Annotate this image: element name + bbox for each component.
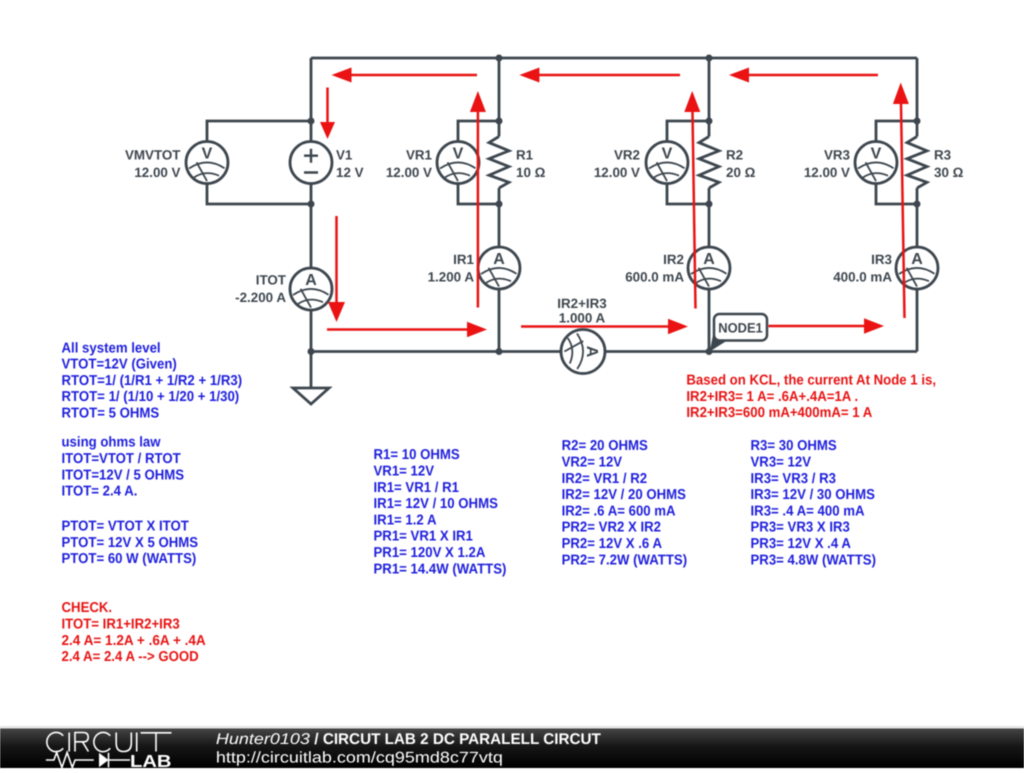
svg-text:VR2= 12V: VR2= 12V: [562, 455, 623, 471]
label V1: [336, 148, 364, 181]
voltmeter VR1: [437, 142, 479, 184]
svg-text:PR1= VR1 X IR1: PR1= VR1 X IR1: [374, 529, 473, 545]
junction VR1 bottom: [496, 201, 503, 208]
svg-text:VMVTOT: VMVTOT: [125, 148, 181, 163]
label IR2: [625, 252, 684, 285]
svg-text:30 Ω: 30 Ω: [934, 165, 964, 180]
svg-text:LAB: LAB: [130, 751, 172, 768]
node NODE1 callout: [710, 314, 767, 352]
svg-text:VR3: VR3: [824, 148, 850, 163]
label IR2+IR3: [557, 296, 607, 326]
svg-text:NODE1: NODE1: [718, 321, 763, 336]
svg-text:PR3= 4.8W (WATTS): PR3= 4.8W (WATTS): [751, 552, 877, 568]
wire R1 branch top: [498, 58, 501, 137]
junction VR3 top: [914, 118, 921, 125]
svg-text:PTOT= 60 W (WATTS): PTOT= 60 W (WATTS): [62, 551, 197, 567]
label VMVTOT: [125, 148, 181, 181]
red current arrows: [320, 68, 909, 338]
svg-text:IR3: IR3: [871, 252, 892, 267]
svg-text:PR2= 12V X .6 A: PR2= 12V X .6 A: [562, 536, 662, 552]
annotation notes column 2 blue: [374, 447, 507, 577]
svg-text:PR2= VR2 X IR2: PR2= VR2 X IR2: [562, 520, 661, 536]
svg-text:R2= 20 OHMS: R2= 20 OHMS: [562, 438, 648, 454]
arrow top right: [747, 74, 878, 77]
svg-text:A: A: [583, 346, 600, 358]
svg-text:ITOT=12V / 5 OHMS: ITOT=12V / 5 OHMS: [62, 467, 185, 483]
svg-text:IR1= 1.2 A: IR1= 1.2 A: [374, 512, 437, 528]
junction bottom bus at R2 branch (node 1): [706, 348, 713, 355]
resistor R2: [699, 137, 719, 189]
svg-text:A: A: [911, 251, 923, 268]
arrow bottom right: [769, 325, 865, 328]
ammeter IR1: [478, 247, 520, 289]
voltmeter VR2: [646, 142, 688, 184]
annotation notes column 1 blue: [62, 340, 243, 567]
svg-text:A: A: [305, 272, 317, 289]
junction V1 bottom: [308, 201, 315, 208]
ammeter IR3: [896, 247, 938, 289]
svg-text:IR3= VR3 / R3: IR3= VR3 / R3: [751, 471, 837, 487]
wire VR3 bottom link: [876, 184, 917, 205]
svg-text:R3: R3: [934, 148, 951, 163]
ground stem: [310, 352, 313, 389]
svg-text:R3= 30 OHMS: R3= 30 OHMS: [751, 438, 837, 454]
svg-text:V1: V1: [336, 148, 353, 163]
svg-text:IR2+IR3=600 mA+400mA= 1 A: IR2+IR3=600 mA+400mA= 1 A: [686, 405, 872, 421]
arrow down V1: [326, 88, 329, 123]
svg-text:1.000 A: 1.000 A: [559, 311, 606, 326]
svg-text:400.0 mA: 400.0 mA: [833, 270, 892, 285]
svg-text:V: V: [662, 145, 673, 162]
svg-text:A: A: [703, 251, 715, 268]
wire bottom bus right: [605, 350, 917, 353]
svg-text:IR2+IR3: IR2+IR3: [557, 296, 607, 311]
svg-text:VR1: VR1: [406, 148, 433, 163]
svg-text:ITOT= 2.4 A.: ITOT= 2.4 A.: [62, 484, 138, 500]
svg-text:12.00 V: 12.00 V: [134, 165, 180, 180]
annotation KCL note red: [686, 373, 936, 422]
arrow top left: [350, 74, 478, 77]
wire VR3 top link: [876, 121, 917, 142]
footer bar: [0, 726, 1024, 771]
svg-text:Hunter0103 / CIRCUT LAB 2 DC P: Hunter0103 / CIRCUT LAB 2 DC PARALELL CI…: [216, 731, 601, 748]
svg-text:VR3= 12V: VR3= 12V: [751, 455, 812, 471]
svg-text:IR1= 12V / 10 OHMS: IR1= 12V / 10 OHMS: [374, 496, 498, 512]
svg-text:V: V: [453, 145, 464, 162]
wire R3 branch top: [916, 58, 919, 137]
arrow up R2: [693, 112, 696, 309]
svg-text:using ohms law: using ohms law: [62, 435, 162, 451]
svg-text:20 Ω: 20 Ω: [726, 165, 756, 180]
voltmeter VMVTOT: [186, 142, 228, 184]
voltage source V1: [290, 142, 332, 184]
svg-text:ITOT=VTOT / RTOT: ITOT=VTOT / RTOT: [62, 451, 181, 467]
wire R2 branch top: [708, 58, 711, 137]
svg-text:PTOT= 12V X 5 OHMS: PTOT= 12V X 5 OHMS: [62, 535, 199, 551]
resistor R1: [489, 137, 509, 189]
wire R1 to IR1: [498, 188, 501, 247]
wire VR2 top link: [667, 121, 709, 142]
logo CIRCUIT LAB: [46, 732, 172, 771]
svg-text:PR2= 7.2W (WATTS): PR2= 7.2W (WATTS): [562, 552, 688, 568]
wire IR3 to bottom bus: [916, 289, 919, 352]
annotation notes column 4 blue: [751, 438, 877, 568]
svg-text:IR1= VR1 / R1: IR1= VR1 / R1: [374, 480, 460, 496]
arrow bottom left: [327, 328, 467, 331]
wire IR2 to bottom bus: [708, 289, 711, 352]
svg-text:IR2= VR1 / R2: IR2= VR1 / R2: [562, 471, 648, 487]
svg-text:PR1= 14.4W (WATTS): PR1= 14.4W (WATTS): [374, 561, 507, 577]
svg-text:All system level: All system level: [62, 340, 161, 356]
svg-text:1.200 A: 1.200 A: [428, 270, 475, 285]
label ITOT: [235, 273, 287, 306]
wire VR2 bottom link: [667, 184, 709, 205]
voltmeter VR3: [855, 142, 897, 184]
ammeter IR2+IR3: [561, 330, 605, 374]
svg-text:CHECK.: CHECK.: [62, 600, 113, 616]
label IR1: [428, 252, 475, 285]
svg-text:ITOT: ITOT: [256, 273, 287, 288]
component labels: [125, 148, 964, 326]
junction bottom bus at V1 branch: [308, 348, 315, 355]
wire top bus: [311, 57, 917, 60]
svg-text:IR2= 12V / 20 OHMS: IR2= 12V / 20 OHMS: [562, 487, 686, 503]
svg-text:2.4 A= 2.4 A --> GOOD: 2.4 A= 2.4 A --> GOOD: [62, 649, 199, 665]
svg-text:V: V: [202, 145, 213, 162]
svg-text:12.00 V: 12.00 V: [594, 165, 640, 180]
wire R3 to IR3: [916, 188, 919, 247]
svg-text:PR3= VR3 X IR3: PR3= VR3 X IR3: [751, 520, 850, 536]
svg-text:600.0 mA: 600.0 mA: [625, 270, 684, 285]
junction V1 top: [308, 118, 315, 125]
junction top bus at R1 branch: [496, 55, 503, 62]
label R2: [726, 148, 756, 181]
wire VR1 top link: [458, 121, 499, 142]
wire VMVTOT top link: [207, 121, 311, 142]
label IR3: [833, 252, 892, 285]
svg-text:RTOT= 1/ (1/10 + 1/20 + 1/30): RTOT= 1/ (1/10 + 1/20 + 1/30): [62, 389, 240, 405]
svg-text:R1: R1: [516, 148, 534, 163]
label VR1: [386, 148, 433, 181]
junction top bus at R2 branch: [706, 55, 713, 62]
svg-text:RTOT=1/ (1/R1 + 1/R2 + 1/R3): RTOT=1/ (1/R1 + 1/R2 + 1/R3): [62, 373, 243, 389]
wire bottom bus left: [311, 350, 561, 353]
svg-text:VTOT=12V (Given): VTOT=12V (Given): [62, 357, 178, 373]
svg-text:IR2= .6 A= 600 mA: IR2= .6 A= 600 mA: [562, 503, 676, 519]
wire IR1 to bottom bus: [498, 289, 501, 352]
label VR2: [594, 148, 640, 181]
label R3: [934, 148, 964, 181]
svg-text:PR1= 120V X 1.2A: PR1= 120V X 1.2A: [374, 545, 486, 561]
wire R2 to IR2: [708, 188, 711, 247]
arrow up R1: [477, 112, 480, 308]
svg-text:A: A: [493, 251, 505, 268]
junction VR1 top: [496, 118, 503, 125]
svg-text:-2.200 A: -2.200 A: [235, 290, 286, 305]
resistor R3: [907, 137, 927, 189]
arrow down ITOT: [335, 216, 338, 302]
svg-text:R2: R2: [726, 148, 743, 163]
ammeter ITOT: [290, 268, 332, 310]
arrow bottom mid: [521, 325, 668, 328]
wire V1 branch upper: [310, 58, 313, 142]
wire VMVTOT bottom link: [207, 184, 311, 205]
svg-text:2.4 A= 1.2A + .6A + .4A: 2.4 A= 1.2A + .6A + .4A: [62, 633, 206, 649]
svg-text:http://circuitlab.com/cq95md8c: http://circuitlab.com/cq95md8c77vtq: [216, 750, 503, 767]
junction VR2 top: [706, 118, 713, 125]
svg-text:IR2+IR3= 1 A= .6A+.4A=1A .: IR2+IR3= 1 A= .6A+.4A=1A .: [686, 389, 858, 405]
label VR3: [804, 148, 850, 181]
svg-text:VR1= 12V: VR1= 12V: [374, 464, 435, 480]
svg-text:Based on KCL, the current At N: Based on KCL, the current At Node 1 is,: [686, 373, 936, 389]
label R1: [516, 148, 546, 181]
svg-text:IR3= 12V / 30 OHMS: IR3= 12V / 30 OHMS: [751, 487, 875, 503]
wire VR1 bottom link: [458, 184, 499, 205]
svg-text:V: V: [871, 145, 882, 162]
svg-text:VR2: VR2: [614, 148, 640, 163]
svg-text:12.00 V: 12.00 V: [386, 165, 432, 180]
junction VR2 bottom: [706, 201, 713, 208]
svg-text:R1= 10 OHMS: R1= 10 OHMS: [374, 447, 460, 463]
wire ITOT to bottom bus: [310, 310, 313, 352]
junction VR3 bottom: [914, 201, 921, 208]
svg-text:PTOT= VTOT X ITOT: PTOT= VTOT X ITOT: [62, 519, 190, 535]
wire V1 to ITOT: [310, 184, 313, 269]
svg-text:ITOT= IR1+IR2+IR3: ITOT= IR1+IR2+IR3: [62, 617, 180, 633]
svg-text:10 Ω: 10 Ω: [516, 165, 546, 180]
ammeter IR2: [688, 247, 730, 289]
junction bottom bus at R1 branch: [496, 348, 503, 355]
svg-text:12 V: 12 V: [336, 165, 364, 180]
svg-text:12.00 V: 12.00 V: [804, 165, 850, 180]
svg-text:IR3= .4 A= 400 mA: IR3= .4 A= 400 mA: [751, 503, 865, 519]
svg-text:RTOT= 5 OHMS: RTOT= 5 OHMS: [62, 406, 160, 422]
svg-text:PR3= 12V X .4 A: PR3= 12V X .4 A: [751, 536, 851, 552]
svg-text:IR1: IR1: [453, 252, 474, 267]
arrow top mid: [537, 74, 680, 77]
arrow up R3: [901, 104, 905, 318]
ground symbol: [293, 388, 329, 404]
svg-text:IR2: IR2: [663, 252, 684, 267]
annotation notes column 3 blue: [562, 438, 688, 568]
annotation CHECK block red: [62, 600, 206, 665]
